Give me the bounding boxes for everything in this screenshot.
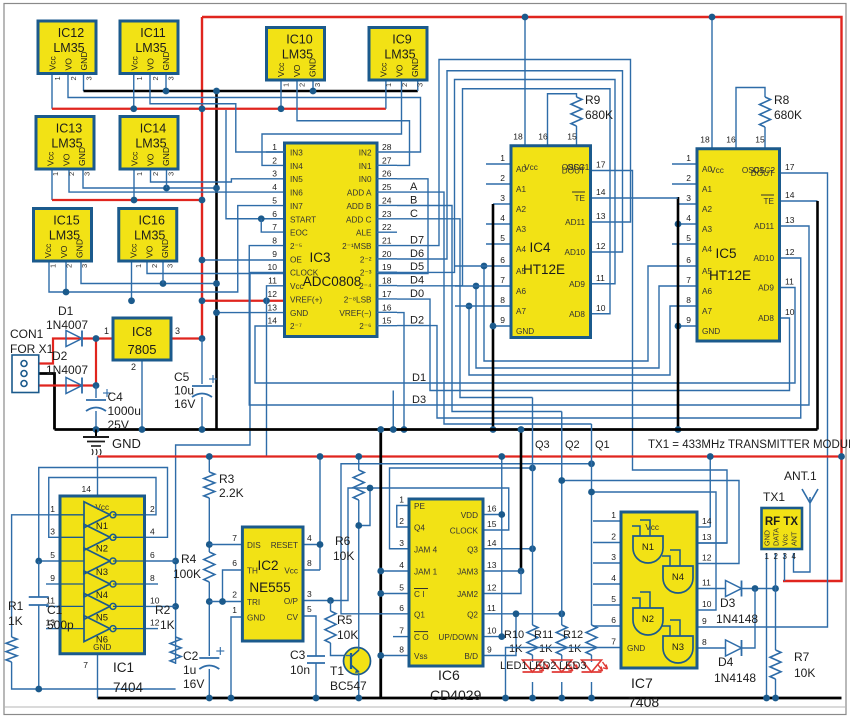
svg-text:1: 1 [53,76,62,80]
svg-text:R1: R1 [8,599,24,613]
svg-text:N2: N2 [642,614,654,625]
svg-text:A: A [410,181,418,193]
svg-text:15: 15 [567,132,577,142]
svg-text:14: 14 [82,484,92,494]
svg-text:RF TX: RF TX [765,516,799,528]
svg-text:VO: VO [395,64,405,77]
svg-text:17: 17 [785,162,795,172]
svg-text:RESET: RESET [271,541,298,550]
svg-text:TX1: TX1 [763,490,785,504]
svg-text:680K: 680K [585,108,613,122]
svg-text:A6: A6 [702,287,712,296]
svg-text:C2: C2 [183,649,199,663]
svg-text:3: 3 [307,589,312,599]
svg-text:GND: GND [161,51,171,70]
svg-text:1K: 1K [8,614,23,628]
svg-text:A3: A3 [516,225,526,234]
svg-text:VO: VO [144,245,154,258]
svg-text:GND: GND [516,327,534,336]
svg-text:GND: GND [290,309,308,318]
svg-text:FOR X1: FOR X1 [10,342,54,356]
svg-text:2⁻⁴: 2⁻⁴ [359,282,372,291]
svg-text:O/P: O/P [284,597,299,606]
svg-text:5: 5 [686,233,691,243]
svg-text:Q3: Q3 [535,439,550,451]
svg-text:4: 4 [686,213,691,223]
svg-text:10K: 10K [794,666,815,680]
svg-text:A1: A1 [516,185,526,194]
svg-text:18: 18 [382,276,392,286]
svg-text:1: 1 [104,326,109,336]
svg-text:GND: GND [112,436,141,451]
svg-text:IC5: IC5 [715,246,736,261]
svg-text:ALE: ALE [356,229,372,238]
svg-text:IC4: IC4 [529,240,551,255]
svg-text:IC10: IC10 [286,33,312,47]
svg-text:2: 2 [65,264,74,268]
svg-text:16: 16 [487,504,497,514]
svg-text:13: 13 [268,302,278,312]
svg-text:A4: A4 [516,245,526,254]
svg-text:3: 3 [83,172,92,176]
svg-text:2: 2 [232,590,237,600]
svg-text:2: 2 [400,83,409,87]
svg-text:ANT: ANT [790,531,799,546]
svg-text:9: 9 [50,573,55,583]
svg-text:1: 1 [272,142,277,152]
svg-text:3: 3 [500,193,505,203]
svg-text:10u: 10u [174,384,194,398]
svg-text:A3: A3 [702,225,712,234]
svg-text:11: 11 [785,277,794,287]
svg-text:LED2: LED2 [529,660,557,672]
svg-text:IC3: IC3 [309,250,330,265]
svg-text:2⁻¹MSB: 2⁻¹MSB [342,242,372,251]
svg-text:7: 7 [500,275,505,285]
svg-text:3: 3 [611,552,616,562]
svg-text:6: 6 [150,550,155,560]
svg-text:1K: 1K [509,643,523,655]
svg-text:1K: 1K [568,643,582,655]
svg-text:VO: VO [62,153,72,166]
svg-text:1: 1 [49,264,58,268]
svg-text:2⁻³: 2⁻³ [360,269,372,278]
svg-text:IC13: IC13 [56,122,82,136]
svg-text:TX1 = 433MHz TRANSMITTER MODUL: TX1 = 433MHz TRANSMITTER MODULE [648,439,850,451]
svg-text:DATA: DATA [772,528,781,546]
svg-text:AD8: AD8 [569,310,585,319]
svg-text:OE: OE [290,255,302,264]
svg-text:3: 3 [167,76,176,80]
svg-text:D3: D3 [720,596,736,610]
svg-text:8: 8 [272,236,277,246]
svg-text:A7: A7 [702,307,712,316]
svg-text:Vcc: Vcc [130,151,140,166]
svg-text:IC9: IC9 [392,33,412,47]
svg-text:8: 8 [150,573,155,583]
svg-text:GND: GND [77,147,87,166]
svg-text:7: 7 [686,275,691,285]
svg-text:TE: TE [575,194,586,203]
svg-text:4: 4 [399,560,404,570]
svg-text:A1: A1 [702,185,712,194]
svg-text:11: 11 [487,603,496,613]
svg-text:2.2K: 2.2K [219,486,244,500]
svg-text:20: 20 [382,249,392,259]
svg-text:2: 2 [686,173,691,183]
svg-text:14: 14 [596,187,606,197]
svg-text:IC8: IC8 [132,324,152,339]
svg-text:1: 1 [611,510,616,520]
svg-text:C5: C5 [174,370,190,384]
svg-text:IC1: IC1 [113,660,134,675]
svg-text:16V: 16V [174,397,195,411]
svg-text:HT12E: HT12E [709,268,751,283]
svg-text:GND: GND [161,147,171,166]
svg-text:1: 1 [384,83,393,87]
svg-text:IC16: IC16 [139,214,165,228]
svg-text:3: 3 [686,193,691,203]
svg-text:Q1: Q1 [595,439,610,451]
svg-text:10K: 10K [333,549,354,563]
svg-text:ADD B: ADD B [346,202,372,211]
svg-text:D1: D1 [412,372,426,384]
svg-text:15: 15 [382,316,392,326]
svg-text:D4: D4 [410,275,424,287]
svg-text:HT12E: HT12E [523,262,565,277]
svg-text:2: 2 [67,172,76,176]
svg-text:Vcc: Vcc [781,534,790,546]
svg-text:10: 10 [702,599,712,609]
svg-text:4: 4 [611,573,616,583]
svg-text:1K: 1K [160,618,175,632]
svg-text:START: START [290,215,316,224]
svg-text:GND: GND [308,58,318,77]
svg-text:14: 14 [785,190,795,200]
svg-text:3: 3 [167,172,176,176]
svg-text:GND: GND [763,530,772,546]
svg-text:AD9: AD9 [569,280,585,289]
svg-text:3: 3 [399,538,404,548]
svg-text:N3: N3 [96,567,108,578]
svg-text:IN3: IN3 [290,149,303,158]
svg-text:GND: GND [79,51,89,70]
svg-text:R9: R9 [585,93,601,107]
svg-text:12: 12 [150,618,160,628]
svg-text:12: 12 [785,247,795,257]
svg-text:GND: GND [627,644,645,653]
svg-text:2: 2 [611,532,616,542]
svg-text:14: 14 [702,516,712,526]
svg-text:IC15: IC15 [53,214,79,228]
svg-text:1N4007: 1N4007 [46,318,88,332]
svg-text:2: 2 [272,155,277,165]
svg-text:13: 13 [596,211,606,221]
svg-text:500p: 500p [47,618,74,632]
svg-text:5: 5 [307,604,312,614]
svg-text:Vcc: Vcc [284,567,298,576]
svg-text:T1: T1 [330,664,344,678]
svg-text:TE: TE [764,197,775,206]
svg-text:5: 5 [399,583,404,593]
svg-text:B: B [410,194,417,206]
svg-text:1: 1 [232,605,237,615]
svg-text:16V: 16V [183,677,204,691]
svg-text:D0: D0 [410,288,424,300]
svg-text:4: 4 [307,533,312,543]
svg-text:8: 8 [399,645,404,655]
svg-text:7: 7 [272,222,277,232]
svg-text:4: 4 [792,552,797,561]
svg-text:14: 14 [268,316,278,326]
svg-text:ADD A: ADD A [347,189,372,198]
svg-text:3: 3 [50,526,55,536]
svg-text:IC12: IC12 [58,26,84,40]
svg-text:C4: C4 [108,390,124,404]
svg-text:R8: R8 [774,93,790,107]
svg-text:R12: R12 [563,629,583,641]
svg-text:9: 9 [686,315,691,325]
svg-text:25V: 25V [108,418,129,432]
svg-text:2: 2 [298,83,307,87]
svg-text:6: 6 [686,255,691,265]
svg-text:3: 3 [80,264,89,268]
svg-text:C1: C1 [47,603,63,617]
svg-text:IN0: IN0 [359,175,372,184]
svg-text:16: 16 [726,135,736,145]
svg-text:4: 4 [500,213,505,223]
svg-text:Vcc: Vcc [290,282,304,291]
svg-text:D2: D2 [410,315,424,327]
svg-text:7: 7 [399,626,404,636]
svg-text:1: 1 [765,552,770,561]
svg-text:3: 3 [272,169,277,179]
svg-text:25: 25 [382,182,392,192]
svg-text:Vcc: Vcc [128,243,138,258]
svg-text:3: 3 [165,264,174,268]
svg-text:AD10: AD10 [565,248,586,257]
svg-text:D2: D2 [52,349,68,363]
svg-text:1K: 1K [539,643,553,655]
svg-text:1u: 1u [183,663,196,677]
svg-text:VO: VO [146,153,156,166]
svg-text:21: 21 [382,236,392,246]
svg-text:9: 9 [702,616,707,626]
svg-text:JAM2: JAM2 [457,590,478,599]
svg-text:Vcc: Vcc [379,62,389,77]
svg-text:IC11: IC11 [140,26,166,40]
svg-text:1: 1 [500,153,505,163]
svg-text:2⁻²: 2⁻² [360,255,372,264]
svg-text:VREF(+): VREF(+) [290,295,322,304]
svg-text:A6: A6 [516,287,526,296]
svg-text:JAM 4: JAM 4 [414,545,438,554]
svg-text:6: 6 [500,255,505,265]
svg-text:D7: D7 [410,235,424,247]
svg-text:Vcc: Vcc [645,523,659,532]
svg-text:Q2: Q2 [565,439,580,451]
svg-text:UP/DOWN: UP/DOWN [438,633,478,642]
svg-text:AD9: AD9 [758,284,774,293]
svg-text:ANT.1: ANT.1 [784,469,817,483]
svg-text:N2: N2 [96,543,108,554]
svg-text:TRI: TRI [247,598,260,607]
svg-text:IN5: IN5 [290,175,303,184]
svg-text:2: 2 [131,362,136,372]
svg-text:N1: N1 [642,542,654,553]
svg-text:VO: VO [146,58,156,71]
svg-text:2: 2 [500,173,505,183]
svg-text:1: 1 [686,153,691,163]
svg-text:2⁻⁷: 2⁻⁷ [290,322,302,331]
svg-text:Q1: Q1 [414,610,425,619]
svg-text:10n: 10n [290,663,310,677]
svg-text:A0: A0 [702,165,712,174]
svg-text:3: 3 [783,552,788,561]
svg-text:9: 9 [272,249,277,259]
svg-text:1: 1 [135,76,144,80]
svg-text:IN6: IN6 [290,189,303,198]
svg-text:100K: 100K [173,567,201,581]
svg-text:GND: GND [410,58,420,77]
svg-text:JAM3: JAM3 [457,568,478,577]
svg-text:680K: 680K [774,108,802,122]
svg-text:R11: R11 [534,629,553,641]
svg-text:16: 16 [538,132,548,142]
svg-text:Vcc: Vcc [276,62,286,77]
svg-text:2: 2 [399,516,404,526]
svg-text:A5: A5 [516,267,526,276]
svg-text:LED3: LED3 [559,660,587,672]
svg-text:Q3: Q3 [467,545,478,554]
svg-text:N4: N4 [672,572,684,583]
svg-text:1N4148: 1N4148 [714,671,756,685]
svg-text:13: 13 [702,532,712,542]
svg-text:1: 1 [135,172,144,176]
svg-text:A7: A7 [516,307,526,316]
svg-text:8: 8 [702,637,707,647]
svg-text:2: 2 [151,172,160,176]
svg-text:ADD C: ADD C [346,215,372,224]
svg-text:26: 26 [382,169,392,179]
svg-text:12: 12 [702,553,712,563]
svg-text:C I: C I [414,590,424,599]
svg-text:7408: 7408 [628,694,659,710]
svg-text:GND: GND [702,327,720,336]
svg-text:D6: D6 [410,248,424,260]
svg-text:1: 1 [50,504,55,514]
svg-text:5: 5 [50,550,55,560]
svg-text:BC547: BC547 [330,679,367,693]
svg-text:2⁻⁵: 2⁻⁵ [290,242,302,251]
svg-text:10: 10 [596,303,606,313]
svg-text:Q4: Q4 [414,524,425,533]
svg-text:IC6: IC6 [438,667,460,683]
svg-text:2: 2 [774,552,779,561]
svg-text:3: 3 [416,83,425,87]
svg-text:7: 7 [232,533,237,543]
svg-text:C: C [410,208,418,220]
svg-text:15: 15 [755,135,765,145]
svg-text:AD11: AD11 [754,222,774,231]
svg-text:JAM 1: JAM 1 [414,568,438,577]
svg-text:GND: GND [75,239,85,258]
svg-text:11: 11 [702,578,711,588]
svg-text:AD11: AD11 [565,218,585,227]
svg-text:CLOCK: CLOCK [290,269,319,278]
svg-text:12: 12 [487,583,497,593]
svg-text:4: 4 [150,526,155,536]
svg-text:IN1: IN1 [359,162,372,171]
svg-text:A0: A0 [516,165,526,174]
svg-text:C O: C O [414,633,429,642]
svg-text:7805: 7805 [128,342,157,357]
svg-text:6: 6 [611,615,616,625]
svg-text:DOUT: DOUT [751,169,774,178]
svg-text:2⁻⁶: 2⁻⁶ [359,322,371,331]
svg-text:CLOCK: CLOCK [450,527,479,536]
svg-text:12: 12 [268,289,278,299]
svg-text:10: 10 [268,262,278,272]
svg-text:2⁻⁸LSB: 2⁻⁸LSB [344,295,372,304]
svg-text:R7: R7 [794,650,810,664]
svg-text:9: 9 [500,315,505,325]
svg-text:Vcc: Vcc [46,151,56,166]
svg-text:12: 12 [596,241,606,251]
svg-text:A2: A2 [516,205,526,214]
svg-text:1: 1 [134,264,143,268]
svg-text:EOC: EOC [290,229,308,238]
svg-text:2: 2 [150,264,159,268]
svg-text:A4: A4 [702,245,712,254]
svg-text:IC14: IC14 [140,122,166,136]
svg-text:2: 2 [69,76,78,80]
svg-text:TH: TH [247,567,258,576]
svg-text:N6: N6 [96,635,108,646]
svg-text:9: 9 [487,645,492,655]
svg-text:LED1: LED1 [500,660,528,672]
svg-text:AD10: AD10 [754,254,775,263]
svg-text:8: 8 [500,295,505,305]
svg-text:Vss: Vss [414,652,428,661]
svg-text:8: 8 [307,558,312,568]
svg-text:Vcc: Vcc [710,166,724,175]
svg-text:11: 11 [268,276,277,286]
svg-text:DIS: DIS [247,541,261,550]
svg-text:13: 13 [487,560,497,570]
svg-text:1N4007: 1N4007 [46,363,88,377]
svg-text:2: 2 [150,504,155,514]
svg-text:CV: CV [287,613,299,622]
svg-text:6: 6 [272,209,277,219]
svg-text:11: 11 [596,273,605,283]
svg-text:3: 3 [85,76,94,80]
svg-text:IN7: IN7 [290,202,303,211]
svg-text:B/D: B/D [464,652,478,661]
svg-text:6: 6 [399,603,404,613]
svg-text:Vcc: Vcc [130,55,140,70]
svg-text:N3: N3 [672,642,684,653]
svg-text:5: 5 [611,594,616,604]
svg-text:VO: VO [292,64,302,77]
svg-text:NE555: NE555 [249,580,290,595]
svg-text:10K: 10K [337,628,358,642]
svg-text:AD8: AD8 [758,314,774,323]
svg-text:28: 28 [382,142,392,152]
svg-text:1: 1 [399,495,404,505]
svg-text:3: 3 [313,83,322,87]
svg-text:DOUT: DOUT [562,167,585,176]
